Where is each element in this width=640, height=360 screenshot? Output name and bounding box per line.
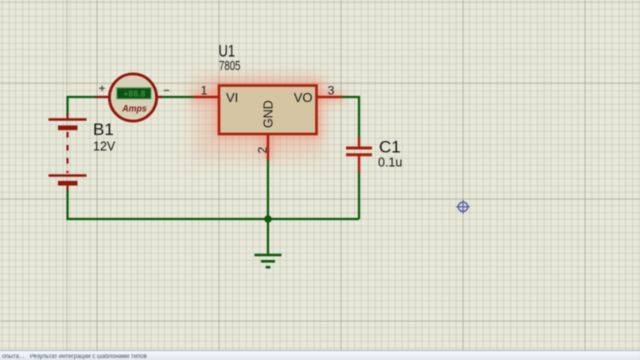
junction dot bbox=[264, 215, 272, 223]
capacitor C1 bbox=[346, 137, 372, 174]
svg-text:VI: VI bbox=[226, 90, 238, 105]
wire battery+ to ammeter (top left) bbox=[68, 97, 96, 115]
svg-text:VO: VO bbox=[294, 90, 313, 105]
svg-text:12V: 12V bbox=[93, 140, 116, 154]
ground bbox=[255, 255, 282, 267]
wire bottom rail bbox=[68, 190, 360, 219]
status bar bbox=[0, 350, 640, 360]
svg-text:Amps: Amps bbox=[121, 104, 147, 114]
wire C1 bottom to ground rail bbox=[358, 173, 360, 220]
svg-text:3: 3 bbox=[328, 84, 335, 98]
ammeter bbox=[95, 74, 162, 121]
wire ground lead bbox=[267, 219, 269, 255]
wire U1 pin 3 to node C1 bbox=[341, 97, 359, 138]
svg-text:7805: 7805 bbox=[219, 59, 241, 73]
selection halo glow on U1 border and pins bbox=[191, 86, 343, 160]
svg-text:B1: B1 bbox=[93, 120, 114, 139]
svg-text:1: 1 bbox=[201, 84, 208, 98]
svg-text:2: 2 bbox=[256, 147, 270, 154]
cursor origin marker bbox=[456, 200, 470, 214]
minus sign bbox=[164, 89, 169, 91]
wire ammeter to U1 pin 1 bbox=[160, 96, 194, 98]
plus sign bbox=[99, 86, 104, 91]
svg-text:U1: U1 bbox=[219, 42, 236, 61]
svg-text:C1: C1 bbox=[379, 138, 401, 157]
selection halo wash around U1 bbox=[190, 75, 344, 160]
svg-text:+88.8: +88.8 bbox=[124, 89, 146, 99]
svg-text:0.1u: 0.1u bbox=[378, 156, 402, 170]
wire U1 pin 2 down to rail bbox=[267, 160, 269, 220]
regulator U1 7805 bbox=[194, 86, 343, 161]
battery B1 bbox=[49, 114, 87, 191]
svg-text:GND: GND bbox=[262, 100, 276, 128]
